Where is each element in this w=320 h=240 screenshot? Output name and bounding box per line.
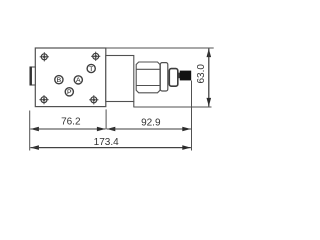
- svg-text:B: B: [57, 77, 62, 84]
- svg-text:P: P: [67, 89, 72, 96]
- port T: [87, 64, 95, 72]
- svg-text:T: T: [89, 66, 93, 73]
- dimension line 63.0 (vertical): [196, 49, 209, 107]
- port P: [65, 88, 73, 96]
- hex nut of cartridge valve: [136, 62, 160, 93]
- dimension line 92.9: [107, 118, 191, 129]
- main valve block body: [35, 48, 106, 107]
- threaded stud: [178, 73, 180, 79]
- screw hole top-left: [40, 52, 49, 61]
- left locating tab: [30, 67, 35, 86]
- screw hole top-right: [91, 52, 100, 61]
- dimension line 173.4: [30, 137, 190, 148]
- bottom extension line for 63.0: [134, 106, 212, 108]
- svg-text:76.2: 76.2: [61, 117, 81, 128]
- screw hole bottom-right: [89, 95, 98, 104]
- screw hole bottom-left: [39, 95, 48, 104]
- top extension line for 63.0: [106, 47, 214, 49]
- svg-text:63.0: 63.0: [196, 64, 207, 84]
- lock nut: [169, 69, 178, 87]
- washer / collar: [160, 63, 168, 91]
- port B: [55, 76, 63, 84]
- narrow extension block (valve body): [106, 56, 134, 108]
- dimension line 76.2: [30, 117, 105, 130]
- svg-text:92.9: 92.9: [141, 118, 161, 129]
- port A: [74, 76, 82, 84]
- svg-text:A: A: [76, 77, 81, 84]
- right edge drop line from connector: [191, 81, 193, 151]
- svg-text:173.4: 173.4: [94, 137, 119, 148]
- black connector end: [180, 71, 191, 81]
- left extension line: [29, 111, 31, 151]
- middle extension line: [105, 109, 107, 129]
